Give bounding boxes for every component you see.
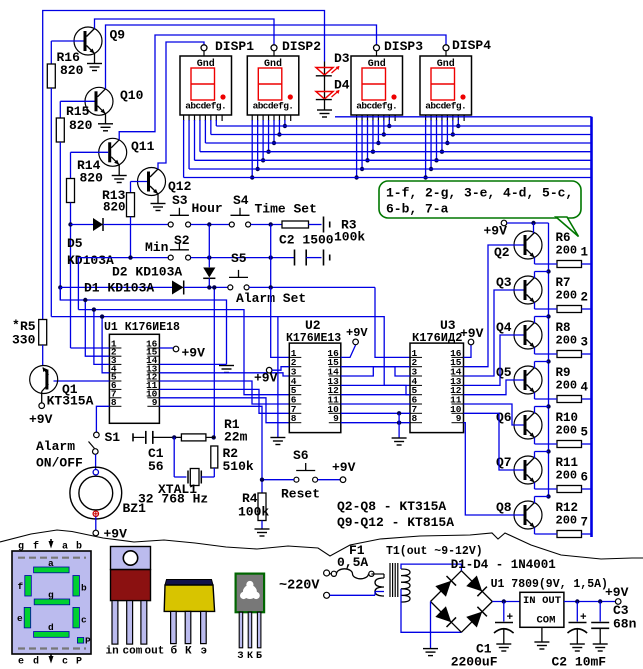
svg-text:э: э	[201, 646, 208, 658]
svg-text:8: 8	[412, 413, 418, 424]
svg-text:200: 200	[556, 244, 578, 258]
svg-text:Q4: Q4	[496, 320, 512, 335]
svg-text:c: c	[62, 657, 68, 668]
svg-text:Alarm: Alarm	[36, 439, 75, 454]
svg-text:b: b	[81, 583, 87, 594]
svg-text:D1 KD103A: D1 KD103A	[84, 281, 154, 296]
svg-text:Q2: Q2	[494, 245, 510, 260]
svg-text:Q10: Q10	[120, 88, 144, 103]
svg-text:DISP4: DISP4	[452, 38, 491, 53]
svg-text:com: com	[123, 646, 143, 658]
svg-text:OUT: OUT	[542, 595, 561, 607]
svg-text:6: 6	[581, 471, 589, 485]
svg-text:S3: S3	[172, 193, 188, 208]
svg-text:in: in	[106, 646, 119, 658]
svg-text:56: 56	[148, 459, 164, 474]
svg-text:COM: COM	[537, 615, 556, 627]
svg-text:200: 200	[556, 334, 578, 348]
svg-text:d: d	[48, 622, 54, 633]
svg-text:abcdefg.: abcdefg.	[425, 101, 466, 112]
svg-text:P: P	[85, 636, 91, 647]
svg-text:З: З	[238, 651, 244, 662]
svg-text:abcdefg.: abcdefg.	[356, 101, 397, 112]
svg-text:К176ИЕ13: К176ИЕ13	[286, 332, 341, 345]
svg-text:100k: 100k	[334, 230, 365, 245]
svg-text:8: 8	[291, 413, 297, 424]
svg-text:1: 1	[581, 246, 589, 260]
svg-text:S5: S5	[231, 251, 247, 266]
svg-text:Б: Б	[256, 651, 262, 662]
svg-text:~220V: ~220V	[279, 579, 320, 594]
svg-text:820: 820	[80, 171, 104, 186]
svg-text:e: e	[17, 613, 23, 624]
svg-text:+9V: +9V	[605, 585, 629, 600]
svg-text:f: f	[18, 581, 24, 592]
svg-text:U2: U2	[305, 318, 321, 333]
svg-text:9: 9	[456, 413, 462, 424]
svg-text:g: g	[18, 542, 24, 553]
svg-text:200: 200	[556, 289, 578, 303]
svg-text:+9V: +9V	[29, 412, 53, 427]
svg-text:2: 2	[581, 291, 589, 305]
svg-text:+9V: +9V	[182, 346, 206, 361]
svg-text:Q2-Q8 - KT315A: Q2-Q8 - KT315A	[337, 499, 446, 514]
svg-text:Q9: Q9	[110, 28, 126, 43]
svg-text:abcdefg.: abcdefg.	[253, 101, 294, 112]
svg-text:C2 1500: C2 1500	[279, 233, 334, 248]
svg-text:200: 200	[556, 469, 578, 483]
svg-text:К: К	[247, 651, 253, 662]
svg-text:Q3: Q3	[496, 275, 512, 290]
svg-text:Q9-Q12 - KT815A: Q9-Q12 - KT815A	[337, 515, 454, 530]
svg-text:200: 200	[556, 514, 578, 528]
svg-text:820: 820	[60, 63, 84, 78]
svg-text:9: 9	[333, 413, 339, 424]
svg-text:abcdefg.: abcdefg.	[185, 101, 226, 112]
svg-text:Q7: Q7	[496, 455, 512, 470]
svg-text:KT315A: KT315A	[47, 394, 94, 409]
svg-text:22m: 22m	[224, 430, 248, 445]
svg-text:9: 9	[152, 397, 158, 408]
svg-text:Q5: Q5	[496, 365, 512, 380]
svg-text:510k: 510k	[223, 459, 254, 474]
svg-text:DISP1: DISP1	[215, 39, 254, 54]
svg-text:1-f, 2-g, 3-e, 4-d, 5-c,: 1-f, 2-g, 3-e, 4-d, 5-c,	[386, 186, 573, 201]
svg-text:b: b	[76, 541, 82, 553]
svg-text:R15: R15	[66, 104, 90, 119]
svg-text:D2 KD103A: D2 KD103A	[112, 265, 182, 280]
svg-text:S4: S4	[233, 193, 249, 208]
svg-text:D3: D3	[334, 51, 350, 66]
svg-text:+9V: +9V	[346, 326, 368, 340]
svg-text:f: f	[33, 541, 39, 553]
svg-text:+9V: +9V	[332, 460, 356, 475]
svg-text:D4: D4	[334, 78, 350, 93]
svg-text:a: a	[62, 542, 68, 553]
svg-text:S2: S2	[174, 233, 190, 248]
svg-text:P: P	[76, 657, 82, 668]
svg-text:out: out	[145, 646, 165, 658]
svg-text:DISP3: DISP3	[384, 39, 423, 54]
svg-text:2200uF: 2200uF	[451, 655, 498, 669]
svg-text:e: e	[18, 657, 24, 668]
svg-text:DISP2: DISP2	[282, 39, 321, 54]
svg-text:S6: S6	[293, 448, 309, 463]
svg-text:IN: IN	[523, 595, 536, 607]
svg-text:+9V: +9V	[254, 371, 278, 386]
svg-text:7: 7	[581, 516, 589, 530]
svg-text:c: c	[81, 615, 87, 626]
svg-text:C2 10mF: C2 10mF	[552, 655, 607, 669]
svg-text:200: 200	[556, 379, 578, 393]
svg-text:ON/OFF: ON/OFF	[36, 456, 83, 471]
svg-text:32 768 Hz: 32 768 Hz	[138, 492, 208, 507]
svg-text:330: 330	[12, 333, 36, 348]
svg-text:4: 4	[581, 381, 589, 395]
svg-text:б: б	[171, 645, 178, 658]
svg-text:Q12: Q12	[168, 179, 192, 194]
svg-text:820: 820	[103, 201, 126, 215]
svg-text:D1-D4 - 1N4001: D1-D4 - 1N4001	[451, 558, 556, 572]
svg-text:Time Set: Time Set	[255, 201, 317, 216]
svg-text:Q11: Q11	[131, 139, 155, 154]
svg-text:К176ИД2: К176ИД2	[412, 331, 462, 345]
svg-text:8: 8	[111, 397, 117, 408]
svg-text:68n: 68n	[613, 617, 637, 632]
svg-text:S1: S1	[105, 430, 121, 445]
svg-text:Min: Min	[145, 240, 169, 255]
svg-text:200: 200	[556, 424, 578, 438]
svg-text:100k: 100k	[238, 505, 269, 520]
svg-text:g: g	[48, 590, 54, 601]
svg-text:KD103A: KD103A	[67, 253, 114, 268]
svg-text:5: 5	[581, 426, 589, 440]
svg-text:a: a	[48, 558, 54, 569]
svg-text:3: 3	[581, 336, 589, 350]
svg-text:d: d	[33, 656, 39, 668]
svg-text:К: К	[185, 646, 192, 658]
svg-text:Hour: Hour	[192, 201, 223, 216]
svg-text:820: 820	[69, 118, 93, 133]
svg-text:+9V: +9V	[484, 224, 508, 239]
svg-text:Q8: Q8	[496, 500, 512, 515]
svg-text:D5: D5	[67, 236, 83, 251]
svg-text:T1(out ~9-12V): T1(out ~9-12V)	[386, 545, 483, 558]
svg-text:6-b, 7-a: 6-b, 7-a	[386, 202, 449, 217]
svg-text:U1 К176ИЕ18: U1 К176ИЕ18	[104, 321, 180, 334]
svg-text:*: *	[12, 318, 20, 333]
svg-text:U1 7809(9V, 1,5A): U1 7809(9V, 1,5A)	[491, 578, 608, 591]
svg-text:+9V: +9V	[460, 326, 484, 341]
svg-text:Reset: Reset	[281, 487, 320, 502]
svg-text:0,5A: 0,5A	[337, 555, 368, 570]
